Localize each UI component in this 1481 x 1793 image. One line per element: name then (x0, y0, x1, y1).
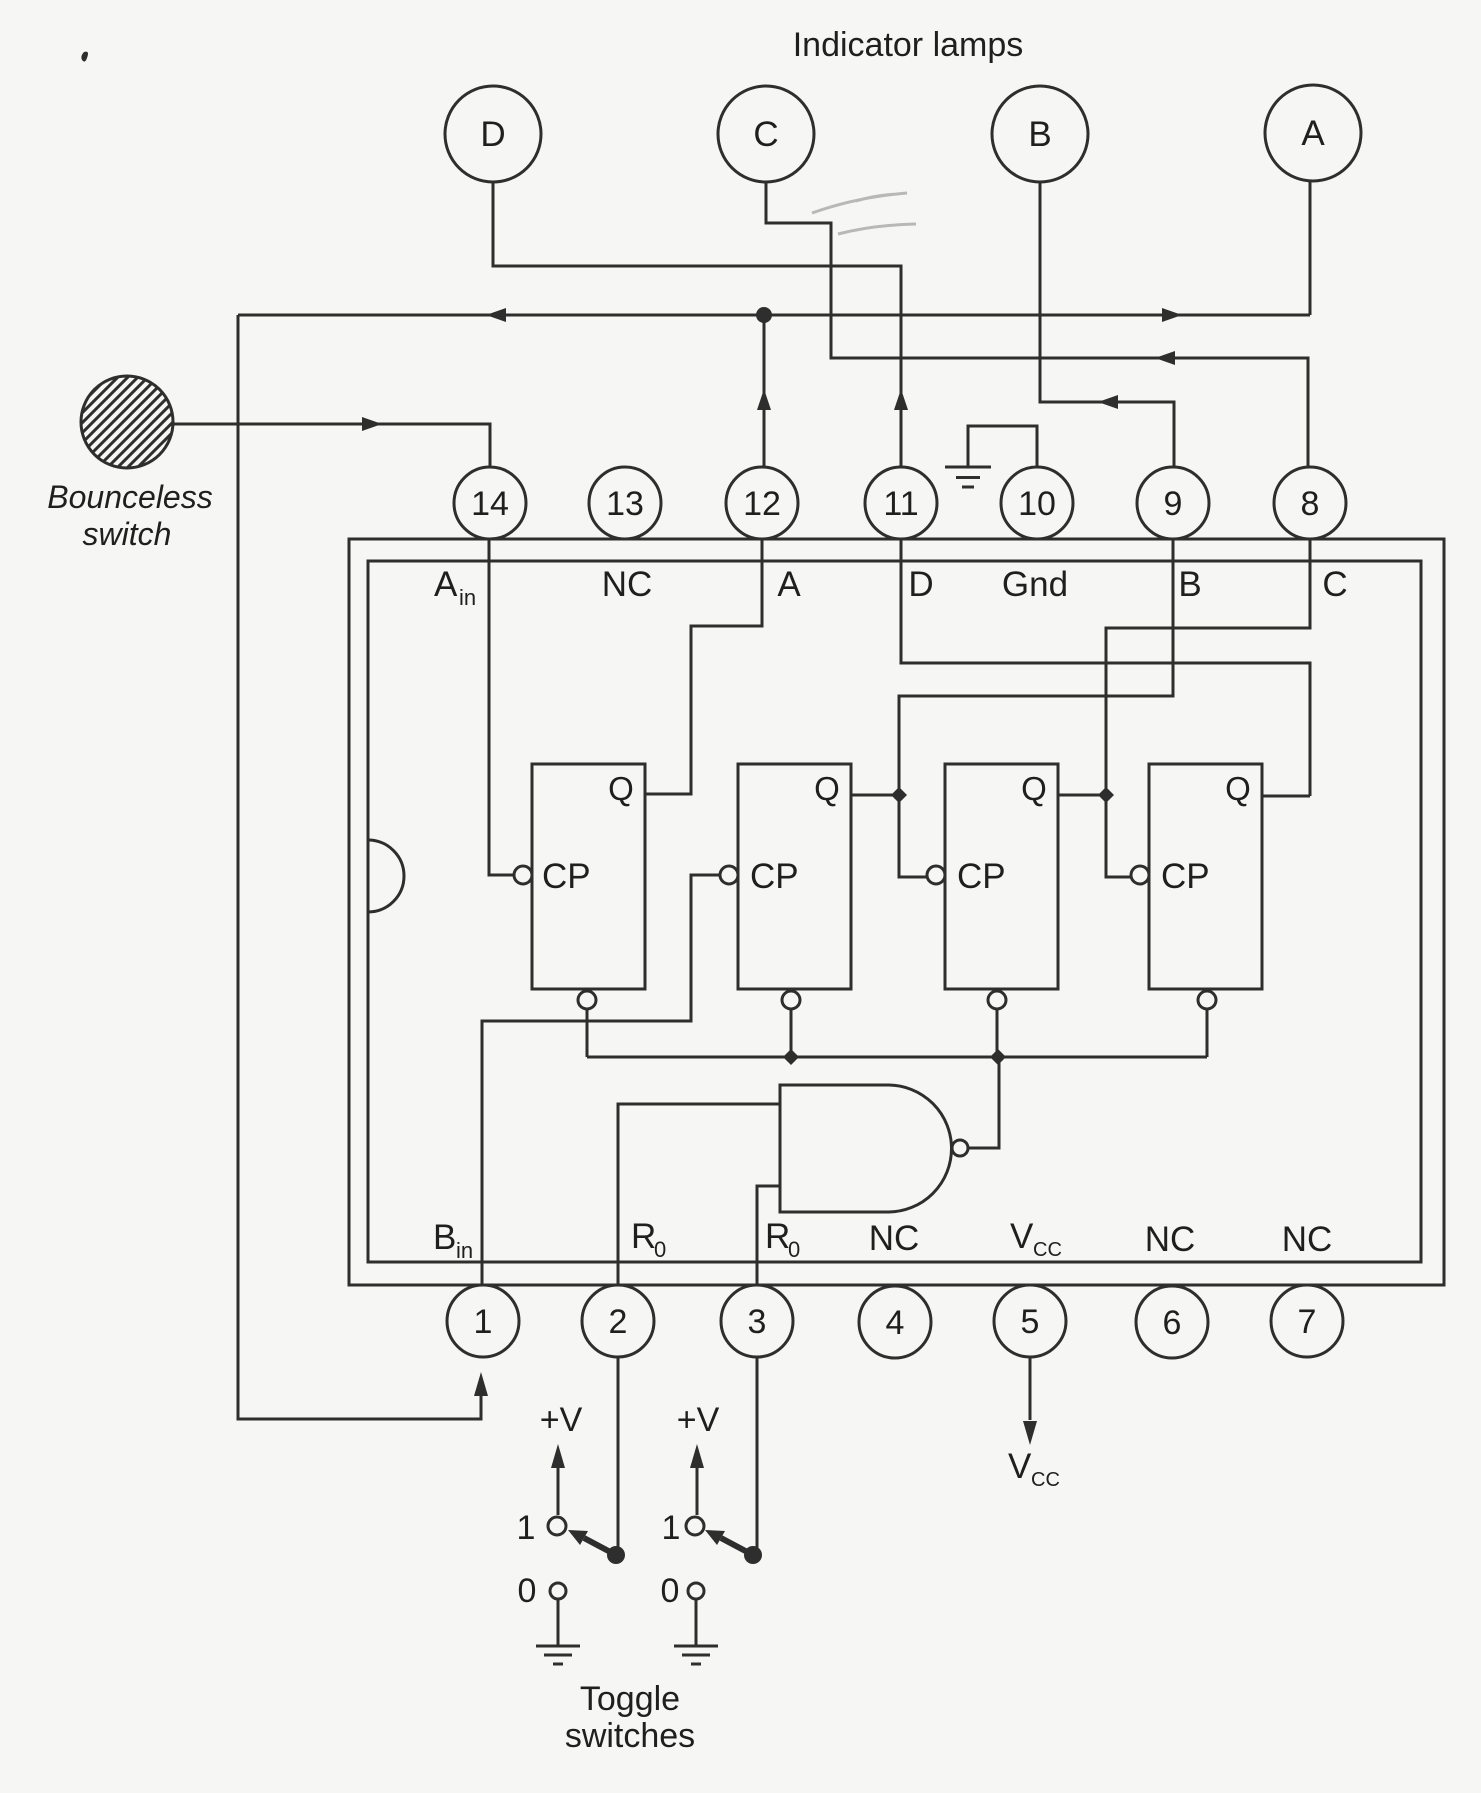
indicator lamp D (445, 86, 541, 182)
svg-text:Q: Q (1225, 770, 1251, 807)
indicator lamp A (1265, 85, 1361, 181)
svg-text:B: B (433, 1218, 456, 1257)
svg-text:9: 9 (1164, 485, 1183, 523)
svg-text:Gnd: Gnd (1002, 565, 1068, 604)
wire Q4 output (1262, 795, 1310, 798)
label: Bounceless switch (47, 479, 212, 552)
svg-text:Q: Q (814, 770, 840, 807)
svg-text:8: 8 (1301, 485, 1320, 523)
svg-text:0: 0 (654, 1237, 666, 1262)
svg-text:CC: CC (1033, 1239, 1062, 1261)
wire pin 8 C to Q3 junction (1106, 539, 1310, 795)
flip-flop FF4 (1131, 764, 1262, 1009)
svg-text:CP: CP (957, 857, 1006, 896)
label Toggle switches (565, 1680, 695, 1755)
pin 1 (447, 1285, 519, 1357)
bounceless switch (55, 265, 180, 580)
svg-text:Toggle: Toggle (580, 1680, 680, 1718)
wire pin 12 to net A (757, 315, 771, 467)
wire FF4 reset stub (1206, 1009, 1209, 1057)
pin 8 (1274, 467, 1346, 539)
svg-text:1: 1 (662, 1509, 681, 1547)
node junction Q3/C (1098, 787, 1114, 803)
svg-text:3: 3 (748, 1303, 767, 1341)
svg-text:+V: +V (540, 1401, 583, 1439)
svg-text:2: 2 (609, 1303, 628, 1341)
wire pin 9 B to Q2 junction (899, 539, 1173, 795)
wire pin 1 Bin to CP2 (482, 875, 720, 1285)
svg-text:NC: NC (869, 1219, 920, 1258)
flip-flop FF1 (514, 764, 645, 1009)
IC outer border (349, 539, 1444, 1285)
wire FF3 reset stub (996, 1009, 999, 1057)
indicator lamp B (992, 86, 1088, 182)
svg-text:B: B (1028, 115, 1051, 154)
svg-text:Indicator lamps: Indicator lamps (793, 26, 1024, 64)
wire pin 2 R0 to NAND input 1 (618, 1104, 780, 1285)
pin 11 (865, 467, 937, 539)
pin 2 (582, 1285, 654, 1357)
svg-text:CC: CC (1031, 1469, 1060, 1491)
svg-text:6: 6 (1163, 1304, 1182, 1342)
svg-text:CP: CP (542, 857, 591, 896)
svg-text:switch: switch (83, 516, 172, 552)
scan speck (81, 52, 88, 62)
svg-text:NC: NC (1282, 1220, 1333, 1259)
svg-text:0: 0 (788, 1237, 800, 1262)
svg-text:14: 14 (471, 485, 509, 523)
pin 7 (1271, 1285, 1343, 1357)
svg-text:switches: switches (565, 1717, 695, 1755)
wire pin 2 to toggle switch 1 (617, 1357, 620, 1548)
NAND gate U2 (780, 1085, 968, 1212)
pin 3 (721, 1285, 793, 1357)
wire pin 11 D to Q4 (901, 539, 1310, 796)
node junction on net A (756, 307, 772, 323)
wire lamp C to pin 8 (766, 182, 1308, 467)
indicator lamp C (718, 86, 814, 182)
svg-text:A: A (1301, 114, 1325, 153)
svg-text:R: R (765, 1217, 790, 1256)
pin 13 (589, 467, 661, 539)
scan smudge marks (812, 193, 916, 234)
svg-text:A: A (777, 565, 801, 604)
svg-text:R: R (631, 1217, 656, 1256)
toggle switch 1 (517, 1401, 625, 1664)
svg-text:4: 4 (886, 1304, 905, 1342)
wire Q2 to CP3 (851, 795, 927, 877)
svg-text:CP: CP (1161, 857, 1210, 896)
svg-text:7: 7 (1298, 1303, 1317, 1341)
svg-text:Q: Q (1021, 770, 1047, 807)
IC inner border (368, 561, 1421, 1262)
flip-flop FF3 (927, 764, 1058, 1009)
wire Q3 to CP4 (1058, 795, 1131, 877)
pin 6 (1136, 1286, 1208, 1358)
wire FF2 reset stub (790, 1009, 793, 1057)
svg-text:Q: Q (608, 770, 634, 807)
pin label Bin (433, 1218, 473, 1263)
wire NAND output to reset bus (968, 1057, 999, 1148)
wire reset bus (587, 1056, 1207, 1059)
svg-text:+V: +V (677, 1401, 720, 1439)
svg-text:V: V (1008, 1447, 1032, 1486)
wire feedback net A to pin 1 (238, 315, 488, 1419)
svg-text:in: in (456, 1238, 473, 1263)
svg-text:11: 11 (883, 485, 918, 523)
pin label R0 (3) (765, 1217, 800, 1262)
pin 10 (1001, 467, 1073, 539)
wire pin 3 to toggle switch 2 (756, 1357, 759, 1548)
wire FF1 reset stub (586, 1009, 589, 1057)
svg-text:NC: NC (1145, 1220, 1196, 1259)
pin label R0 (2) (631, 1217, 666, 1262)
svg-text:CP: CP (750, 857, 799, 896)
wire Q1 to pin 12 (645, 539, 762, 794)
svg-text:Bounceless: Bounceless (47, 479, 212, 515)
svg-text:B: B (1178, 565, 1201, 604)
wire lamp B to pin 9 (1040, 182, 1174, 467)
wire lamp D to pin 11 (493, 182, 908, 467)
svg-text:1: 1 (517, 1509, 536, 1547)
wire bounceless switch to pin 14 (173, 417, 490, 467)
svg-text:12: 12 (743, 485, 781, 523)
toggle switch 2 (661, 1401, 762, 1664)
pin label Ain (434, 565, 476, 610)
svg-text:0: 0 (661, 1572, 680, 1610)
svg-text:1: 1 (474, 1303, 493, 1341)
pin 12 (726, 467, 798, 539)
svg-text:5: 5 (1021, 1303, 1040, 1341)
pin label Vcc (5) (1010, 1217, 1062, 1261)
svg-text:V: V (1010, 1217, 1034, 1256)
pin 9 (1137, 467, 1209, 539)
node junction reset bus FF3/NAND (990, 1049, 1006, 1065)
IC notch (368, 840, 404, 912)
svg-text:0: 0 (518, 1572, 537, 1610)
wire pin 14 Ain to CP1 (489, 539, 514, 875)
svg-text:D: D (480, 115, 505, 154)
svg-text:10: 10 (1018, 485, 1056, 523)
svg-text:D: D (908, 565, 933, 604)
wire pin 5 to Vcc (1023, 1357, 1037, 1445)
svg-text:A: A (434, 565, 458, 604)
svg-text:C: C (753, 115, 778, 154)
node junction reset bus FF2 (783, 1049, 799, 1065)
svg-text:13: 13 (606, 485, 644, 523)
svg-text:NC: NC (602, 565, 653, 604)
pin 4 (859, 1286, 931, 1358)
node junction Q2/B (891, 787, 907, 803)
wire pin 3 R0 to NAND input 2 (757, 1186, 780, 1285)
ground symbol at pin 10 (945, 426, 1037, 487)
wire net A horizontal (pin 12 to lamp A and feedback) (238, 182, 1310, 322)
pin 5 (994, 1285, 1066, 1357)
flip-flop FF2 (720, 764, 851, 1009)
label Vcc external (1008, 1447, 1060, 1491)
svg-text:C: C (1322, 565, 1347, 604)
pin 14 (454, 467, 526, 539)
svg-text:in: in (459, 585, 476, 610)
